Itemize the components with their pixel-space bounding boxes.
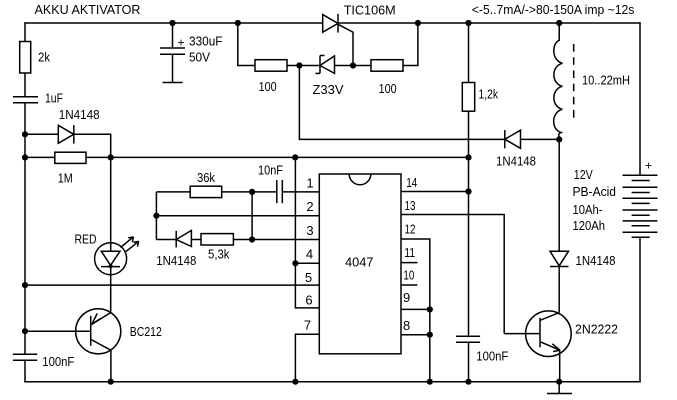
diode D4 1N4148: [176, 230, 191, 247]
svg-text:1: 1: [306, 175, 313, 190]
led LED1 arrow 2: [126, 241, 139, 251]
svg-text:9: 9: [403, 290, 410, 305]
label C3 plus: [178, 35, 185, 49]
label C1 value 1uF: [45, 91, 63, 106]
node left / R5: [22, 154, 28, 160]
label pin 11: [404, 245, 415, 260]
wire pin8 stub: [401, 334, 430, 336]
label battery plus: [645, 158, 652, 172]
thyristor U2 TIC106M: [323, 14, 338, 33]
resistor R4 1.2k: [462, 83, 474, 112]
label R3 value 100: [379, 81, 397, 96]
label L1 value 10..22mH: [582, 72, 630, 87]
battery BT1: [623, 175, 658, 237]
label pin 8: [403, 318, 410, 333]
wire pin9 stub: [401, 308, 430, 310]
node pin9 / pin12 branch: [427, 306, 433, 312]
svg-text:4047: 4047: [345, 255, 374, 270]
label D3 value 1N4148: [496, 154, 536, 169]
diode D5 1N4148: [550, 251, 569, 266]
node bottom rail / Q1: [108, 379, 114, 385]
node bottom rail / Q2: [556, 379, 562, 385]
label pin 6: [305, 293, 312, 308]
wire pin6 stub: [295, 157, 319, 308]
wire pin12 stub: [401, 239, 430, 382]
wire LED top lead: [110, 157, 112, 251]
wire top rail left of SCR: [24, 22, 322, 24]
svg-text:1uF: 1uF: [45, 91, 63, 106]
svg-text:120Ah: 120Ah: [573, 218, 606, 233]
node pin4 branch: [292, 260, 298, 266]
label R7 value 5,3k: [208, 247, 230, 262]
node rail158 / D1: [108, 154, 114, 160]
title AKKU AKTIVATOR: [35, 2, 141, 17]
wire R2 to zener: [287, 65, 320, 67]
node R4 / pin14: [465, 188, 471, 194]
label current annotation: [472, 2, 635, 17]
svg-text:1M: 1M: [58, 171, 73, 186]
wire pin10 stub: [401, 284, 417, 286]
node top rail / L1: [556, 20, 562, 26]
node R4 / rail158: [465, 154, 471, 160]
svg-text:11: 11: [404, 245, 415, 260]
inductor L1 core: [573, 44, 575, 123]
svg-text:3: 3: [306, 223, 313, 238]
svg-text:100: 100: [379, 81, 397, 96]
wire R4 top lead: [468, 23, 470, 83]
svg-text:100nF: 100nF: [476, 349, 508, 364]
label LED1 RED: [75, 232, 97, 247]
svg-text:TIC106M: TIC106M: [344, 3, 396, 18]
ic U1 4047 body: [319, 174, 401, 354]
svg-text:8: 8: [403, 318, 410, 333]
capacitor C4 100nF right: [456, 336, 480, 342]
label pin 3: [306, 223, 313, 238]
wire bottom rail: [24, 381, 640, 383]
svg-text:4: 4: [306, 246, 313, 261]
svg-text:12: 12: [405, 222, 416, 237]
svg-text:+: +: [178, 35, 185, 49]
capacitor C5 10nF: [277, 180, 283, 203]
node zener left: [296, 62, 302, 68]
label battery PB-Acid: [573, 184, 617, 199]
label D4 value 1N4148: [156, 253, 196, 268]
label C3 voltage 50V: [189, 49, 210, 64]
node rail158 / pin4 branch: [292, 154, 298, 160]
label pin 2: [306, 199, 313, 214]
wire pin2 stub: [156, 215, 319, 217]
label R4 value 1,2k: [479, 87, 499, 102]
label pin 9: [403, 290, 410, 305]
svg-text:<-5..7mA/->80-150A imp ~12s: <-5..7mA/->80-150A imp ~12s: [472, 2, 635, 17]
transistor Q2 2N2222: [526, 311, 572, 357]
wire pin4 stub: [295, 262, 319, 264]
led LED1 RED: [95, 243, 127, 275]
wire rail158 left: [25, 156, 55, 158]
node top rail / R3: [415, 20, 421, 26]
node bottom rail / C4: [465, 379, 471, 385]
label pin 7: [304, 318, 311, 333]
node left / pin5 row: [22, 282, 28, 288]
wire Q1 emitter to rail: [110, 350, 112, 382]
label pin 1: [306, 175, 313, 190]
resistor R5 1M: [55, 152, 86, 163]
led LED1 arrow 1: [121, 237, 134, 248]
capacitor C2 100nF left: [13, 354, 37, 360]
label TIC106M: [344, 3, 396, 18]
resistor R6 36k: [190, 186, 222, 197]
svg-text:330uF: 330uF: [189, 33, 223, 48]
svg-text:10..22mH: 10..22mH: [582, 72, 630, 87]
svg-text:36k: 36k: [197, 170, 215, 185]
wire Q2 emitter: [559, 350, 561, 382]
capacitor C3 330uF: [160, 48, 185, 54]
label C3 value 330uF: [189, 33, 223, 48]
svg-text:Z33V: Z33V: [313, 82, 344, 97]
wire R6 left: [156, 191, 190, 193]
wire pin13 stub: [401, 215, 504, 334]
label pin 13: [405, 198, 416, 213]
label pin 5: [305, 270, 312, 285]
label battery 10Ah-: [573, 202, 603, 217]
transistor Q1 arrow: [92, 313, 101, 324]
wire SCR gate: [338, 24, 353, 66]
wire pin7 stub: [295, 334, 319, 382]
wire node A to node C: [251, 192, 253, 240]
wire D4 to R7: [191, 239, 201, 241]
wire right column top: [639, 22, 641, 175]
node bottom rail / pin7: [292, 379, 298, 385]
svg-text:5,3k: 5,3k: [208, 247, 230, 262]
wire zener junction down: [299, 66, 504, 140]
label pin 10: [403, 268, 414, 283]
label pin 4: [306, 246, 313, 261]
diode D3 1N4148: [505, 130, 521, 148]
wire C3 top lead: [172, 23, 174, 48]
wire D5 to Q2: [558, 267, 560, 313]
svg-text:5: 5: [305, 270, 312, 285]
wire pin3 stub: [233, 239, 319, 241]
svg-text:1N4148: 1N4148: [496, 154, 536, 169]
svg-text:10Ah-: 10Ah-: [573, 202, 603, 217]
svg-text:2: 2: [306, 199, 313, 214]
wire D3 to L1: [521, 138, 560, 140]
resistor R1 2k: [20, 42, 31, 74]
wire left column main: [24, 103, 26, 354]
svg-text:1N4148: 1N4148: [59, 107, 100, 122]
svg-text:7: 7: [304, 318, 311, 333]
label Q1 BC212: [130, 324, 162, 339]
wire R6 right: [222, 191, 252, 193]
wire C5 to node A: [252, 191, 277, 193]
diode D1 1N4148: [58, 125, 74, 144]
node pin8 / pin12 branch: [427, 332, 433, 338]
svg-text:AKKU AKTIVATOR: AKKU AKTIVATOR: [35, 2, 141, 17]
svg-text:2k: 2k: [38, 49, 50, 64]
node top rail / C3: [169, 20, 175, 26]
wire pin5 row: [25, 284, 319, 286]
wire D1 anode: [25, 133, 58, 135]
transistor Q2 arrow: [552, 344, 560, 352]
wire pin3 left: [156, 239, 176, 241]
label battery 12V: [574, 167, 593, 182]
node B pin2 branch: [153, 213, 159, 219]
svg-text:2N2222: 2N2222: [575, 322, 618, 337]
wire R3 up to top rail: [403, 23, 418, 66]
label C4 value 100nF: [476, 349, 508, 364]
node left / D1: [22, 131, 28, 137]
wire snubber down-left: [238, 23, 255, 66]
node A: [249, 189, 255, 195]
wire left column top: [24, 22, 26, 42]
wire C3 bottom lead: [172, 54, 174, 82]
resistor R7 5,3k: [201, 234, 233, 245]
wire LED to Q1: [110, 267, 112, 312]
label pin 12: [405, 222, 416, 237]
svg-text:100: 100: [259, 79, 277, 94]
label C2 value 100nF: [42, 354, 74, 369]
svg-text:1N4148: 1N4148: [156, 253, 196, 268]
svg-text:13: 13: [405, 198, 416, 213]
svg-text:6: 6: [305, 293, 312, 308]
svg-text:14: 14: [406, 175, 417, 190]
wire zener to R3: [335, 65, 372, 67]
inductor L1: [554, 23, 563, 139]
transistor Q1 BC212: [76, 309, 121, 354]
wire L1 to D5: [558, 139, 560, 251]
svg-text:1N4148: 1N4148: [576, 253, 616, 268]
wire left branch vertical: [155, 192, 157, 240]
label battery 120Ah: [573, 218, 606, 233]
node C rc junction: [249, 236, 255, 242]
node bottom rail / pin12 branch: [427, 379, 433, 385]
wire pin1 stub: [282, 191, 319, 193]
node gate junction: [350, 62, 356, 68]
svg-text:RED: RED: [75, 232, 97, 247]
label R1 value 2k: [38, 49, 50, 64]
label D2 value Z33V: [313, 82, 344, 97]
wire R4 to C4: [468, 111, 470, 336]
resistor R2 100: [255, 60, 287, 71]
diode D2 zener Z33V: [316, 56, 335, 74]
svg-text:PB-Acid: PB-Acid: [573, 184, 617, 199]
label Q2 2N2222: [575, 322, 618, 337]
wire Q1 base: [25, 330, 90, 332]
wire pin14 stub: [401, 191, 469, 193]
wire right column bottom: [639, 237, 641, 382]
label pin 14: [406, 175, 417, 190]
label D1 value 1N4148: [59, 107, 100, 122]
node L1 bottom: [556, 136, 562, 142]
label D5 value 1N4148: [576, 253, 616, 268]
svg-text:100nF: 100nF: [42, 354, 74, 369]
resistor R3 100: [371, 60, 403, 71]
wire pin11 stub: [401, 262, 417, 264]
label R2 value 100: [259, 79, 277, 94]
terminal under Q2: [547, 382, 572, 394]
wire rail158: [86, 156, 469, 158]
node top rail / R4: [465, 20, 471, 26]
terminal under C3: [163, 82, 183, 84]
svg-text:1,2k: 1,2k: [479, 87, 499, 102]
wire top rail right of SCR: [338, 22, 641, 24]
label U1 4047: [345, 255, 374, 270]
node top rail / snubber: [235, 20, 241, 26]
svg-text:50V: 50V: [189, 49, 210, 64]
svg-text:BC212: BC212: [130, 324, 162, 339]
svg-text:10nF: 10nF: [258, 163, 283, 178]
svg-text:12V: 12V: [574, 167, 593, 182]
wire D1 cathode: [74, 134, 111, 157]
label C5 value 10nF: [258, 163, 283, 178]
label R5 value 1M: [58, 171, 73, 186]
svg-text:+: +: [645, 158, 652, 172]
svg-text:10: 10: [403, 268, 414, 283]
wire C4 to bottom rail: [468, 342, 470, 382]
capacitor C1 1uF: [13, 97, 38, 103]
wire 2k to 1uF: [24, 73, 26, 97]
wire Q2 base: [504, 333, 539, 335]
wire C2 to bottom rail: [24, 360, 26, 382]
node left / Q1 base: [22, 328, 28, 334]
label R6 value 36k: [197, 170, 215, 185]
